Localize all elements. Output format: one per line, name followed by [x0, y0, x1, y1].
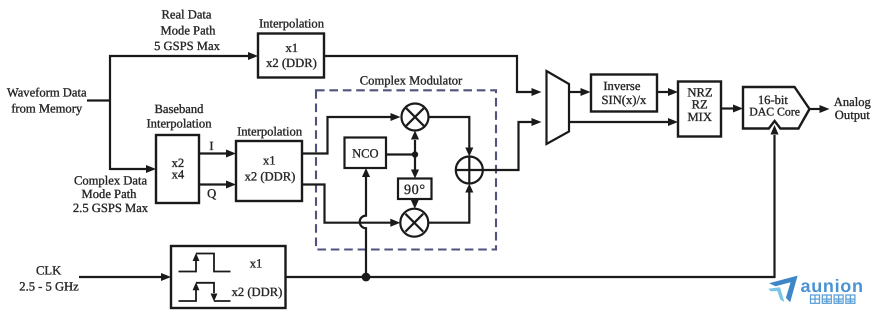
svg-text:Real Data: Real Data — [162, 8, 212, 22]
wire: inverse sinc to NRZ — [657, 91, 669, 93]
block: clock shaper — [171, 246, 286, 308]
block: Interpolation 2 — [236, 141, 302, 201]
wire: I path to top multiplier — [302, 117, 391, 154]
block: NCO — [345, 138, 387, 169]
logo: chinese characters — [811, 295, 855, 303]
svg-text:Q: Q — [207, 187, 216, 201]
svg-text:Interpolation: Interpolation — [237, 124, 303, 138]
glyph: clock waveform x1 — [179, 254, 231, 272]
svg-text:2.5 - 5 GHz: 2.5 - 5 GHz — [19, 279, 79, 293]
multiplier: bottom mixer — [400, 209, 428, 237]
block: NRZ RZ MIX — [678, 82, 721, 137]
wire: DAC analog output — [810, 108, 822, 110]
svg-text:Mode Path: Mode Path — [82, 187, 138, 201]
wire: clock up to NCO — [360, 177, 366, 277]
svg-text:x2 (DDR): x2 (DDR) — [266, 56, 317, 70]
svg-text:Inverse: Inverse — [603, 79, 640, 93]
wire: CLK input — [79, 276, 162, 278]
svg-text:Complex Modulator: Complex Modulator — [360, 73, 463, 87]
wire: clock distribution to DAC — [285, 135, 775, 277]
logo: aunion dark blue chevron plane — [769, 276, 798, 303]
svg-text:DAC Core: DAC Core — [749, 104, 800, 118]
block: 90 degree phase — [398, 179, 432, 200]
svg-text:x2 (DDR): x2 (DDR) — [232, 285, 283, 299]
wire: Q path to bottom multiplier with hop — [302, 185, 392, 223]
svg-text:MIX: MIX — [687, 110, 712, 124]
wire: mux to inverse sinc — [569, 91, 582, 93]
wire: NCO output to junction — [386, 153, 415, 155]
wire: adder to mux — [483, 122, 532, 170]
dashed box: Complex Modulator boundary — [316, 90, 496, 249]
svg-text:Complex Data: Complex Data — [74, 173, 148, 187]
wire: input trunk vertical — [109, 55, 111, 170]
wire: I into interp2 — [199, 152, 227, 154]
block: 16-bit DAC core — [743, 87, 810, 129]
svg-text:Output: Output — [835, 108, 870, 122]
wire: Waveform Data connector — [87, 99, 111, 101]
adder: summer circle — [456, 157, 483, 184]
wire: bottom multiplier to adder — [428, 193, 469, 223]
svg-text:x1: x1 — [263, 153, 276, 167]
mux: selector trapezoid — [547, 71, 570, 144]
wire: complex path into x2x4 — [110, 168, 147, 170]
svg-text:aunion: aunion — [801, 276, 864, 296]
svg-text:I: I — [209, 139, 213, 153]
wire: 90deg to bottom multiplier — [414, 199, 416, 200]
block: x2 x4 baseband interpolation — [156, 135, 199, 203]
wire: mux bypass to NRZ — [569, 121, 669, 123]
svg-text:SIN(x)/x: SIN(x)/x — [602, 93, 647, 107]
logo: aunion light blue chevron wing — [768, 287, 784, 302]
svg-text:2.5 GSPS Max: 2.5 GSPS Max — [73, 201, 149, 215]
wire: interp1 to mux — [324, 56, 532, 92]
svg-text:x2 (DDR): x2 (DDR) — [245, 170, 296, 184]
block: Interpolation 1 — [258, 34, 324, 78]
svg-text:x1: x1 — [250, 257, 263, 271]
svg-text:90°: 90° — [404, 182, 426, 198]
svg-text:5 GSPS Max: 5 GSPS Max — [154, 39, 220, 53]
block: Inverse SIN(x)/x — [591, 75, 657, 112]
wire: real data path into interp1 — [109, 55, 249, 57]
svg-text:Baseband: Baseband — [155, 102, 205, 116]
svg-text:Mode Path: Mode Path — [161, 24, 217, 38]
wire: NRZ to DAC core — [721, 107, 734, 109]
svg-text:Interpolation: Interpolation — [259, 16, 325, 30]
svg-text:x1: x1 — [286, 41, 299, 55]
svg-text:from Memory: from Memory — [11, 101, 83, 115]
svg-text:NCO: NCO — [352, 147, 378, 161]
wire: junction down into 90deg block — [414, 155, 416, 171]
svg-text:Interpolation: Interpolation — [146, 117, 212, 131]
node: clock junction dot — [362, 273, 371, 282]
svg-text:CLK: CLK — [36, 263, 61, 277]
svg-text:Analog: Analog — [834, 95, 872, 109]
svg-text:x4: x4 — [172, 168, 185, 182]
glyph: clock waveform x2 DDR — [179, 283, 231, 301]
wire: Q into interp2 — [199, 183, 227, 185]
multiplier: top mixer — [402, 104, 429, 131]
wire: top multiplier to adder — [429, 117, 470, 148]
node: NCO junction dot — [412, 151, 418, 157]
svg-text:Waveform Data: Waveform Data — [7, 86, 87, 100]
wire: junction up into top multiplier — [414, 140, 416, 155]
